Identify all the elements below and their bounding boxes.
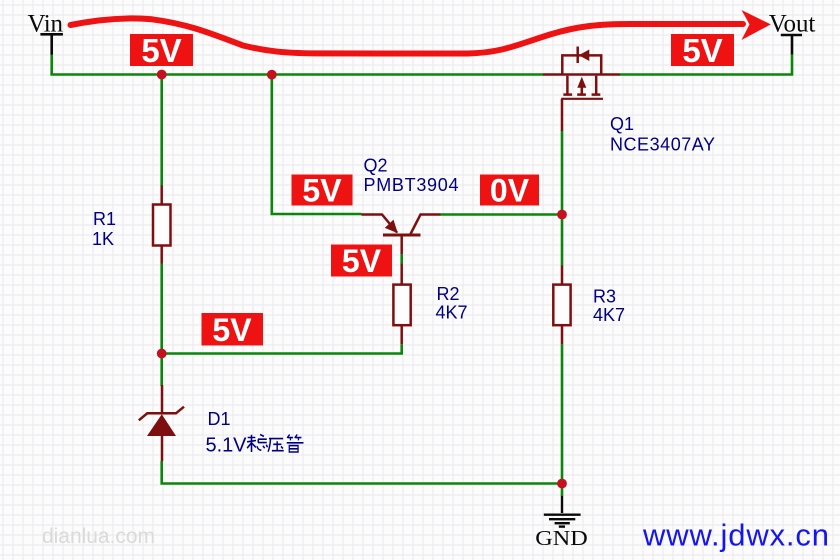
svg-text:5V: 5V	[302, 173, 342, 209]
annotation arrowhead	[742, 10, 771, 40]
svg-text:Vin: Vin	[28, 11, 64, 38]
svg-text:5V: 5V	[212, 312, 252, 348]
svg-text:5V: 5V	[342, 243, 382, 279]
voltage tag 5V at Vout	[671, 32, 734, 69]
wire top rail left	[50, 73, 543, 76]
voltage tag 5V at Q2 base	[331, 243, 392, 279]
wire Vin stem	[50, 54, 53, 74]
svg-text:GND: GND	[535, 526, 588, 550]
voltage tag 5V at zener node	[202, 312, 264, 348]
voltage tag 0V at Q1 gate	[480, 173, 539, 209]
voltage tag 5V at Vin	[130, 32, 193, 69]
svg-text:4K7: 4K7	[593, 305, 625, 325]
annotation red current curve	[71, 18, 744, 53]
svg-text:R2: R2	[437, 284, 460, 304]
ground symbol GND	[544, 496, 581, 527]
junction node ground	[557, 479, 567, 489]
svg-text:Q1: Q1	[610, 114, 634, 134]
svg-text:Vout: Vout	[769, 11, 816, 38]
voltage tag 5V at Q2 collector	[292, 173, 353, 209]
wire D1 to ground node	[162, 461, 562, 484]
port Vin	[40, 34, 63, 54]
junction node top rail Q2 branch	[267, 70, 277, 80]
svg-text:NCE3407AY: NCE3407AY	[610, 135, 715, 155]
wire R3 bottom	[561, 344, 564, 483]
resistor R1	[153, 186, 171, 264]
wire stub above ground	[561, 484, 564, 497]
svg-text:R1: R1	[93, 209, 116, 229]
junction node top rail R1	[157, 70, 167, 80]
svg-text:www.jdwx.cn: www.jdwx.cn	[642, 518, 829, 553]
svg-text:PMBT3904: PMBT3904	[364, 175, 459, 195]
wire Q2 collector branch	[272, 75, 362, 215]
svg-text:0V: 0V	[490, 173, 530, 209]
wire Q2 base to R2	[400, 254, 403, 264]
value zener CJK char 2	[268, 439, 284, 452]
svg-text:5.1V: 5.1V	[206, 434, 248, 456]
svg-text:dianlua.com: dianlua.com	[42, 525, 155, 548]
MOSFET Q1	[543, 47, 620, 132]
svg-text:4K7: 4K7	[436, 303, 468, 323]
svg-text:5V: 5V	[141, 32, 181, 69]
wire Q1 gate down	[561, 131, 564, 215]
svg-text:1K: 1K	[92, 229, 114, 249]
wire R1 bottom	[160, 263, 163, 353]
svg-text:5V: 5V	[682, 32, 722, 69]
junction node gate R3	[557, 210, 567, 220]
svg-text:D1: D1	[208, 409, 231, 429]
junction node 5V net	[157, 349, 167, 359]
port Vout	[781, 35, 802, 54]
wire R1 top branch	[160, 75, 163, 186]
wire 5V net to R2 bottom	[162, 344, 402, 353]
wire top rail right to Vout	[620, 54, 792, 75]
resistor R2	[393, 264, 410, 345]
svg-text:R3: R3	[593, 287, 616, 307]
zener diode D1	[139, 385, 184, 461]
value zener CJK char 3	[287, 435, 304, 453]
value zener CJK char 1	[247, 435, 267, 453]
wire 5V node to D1	[160, 354, 163, 387]
wire node to R3	[561, 215, 564, 266]
resistor R3	[553, 266, 570, 345]
svg-text:Q2: Q2	[364, 156, 388, 176]
transistor Q2	[362, 215, 441, 255]
wire Q2 emitter to node	[440, 213, 562, 216]
